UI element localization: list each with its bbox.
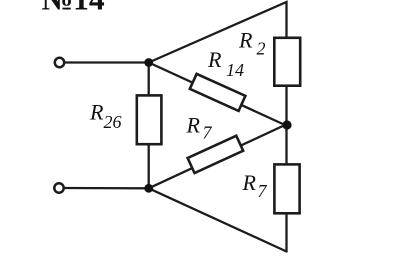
svg-text:2: 2 xyxy=(257,39,266,59)
svg-text:14: 14 xyxy=(226,60,244,80)
svg-text:№14: №14 xyxy=(42,0,105,16)
svg-text:R: R xyxy=(242,170,257,195)
svg-text:7: 7 xyxy=(203,123,213,143)
svg-text:R: R xyxy=(186,113,201,138)
svg-text:7: 7 xyxy=(258,181,268,201)
svg-text:R: R xyxy=(238,28,253,53)
svg-text:R: R xyxy=(207,47,222,72)
svg-text:R: R xyxy=(89,99,104,124)
svg-text:26: 26 xyxy=(104,112,122,132)
